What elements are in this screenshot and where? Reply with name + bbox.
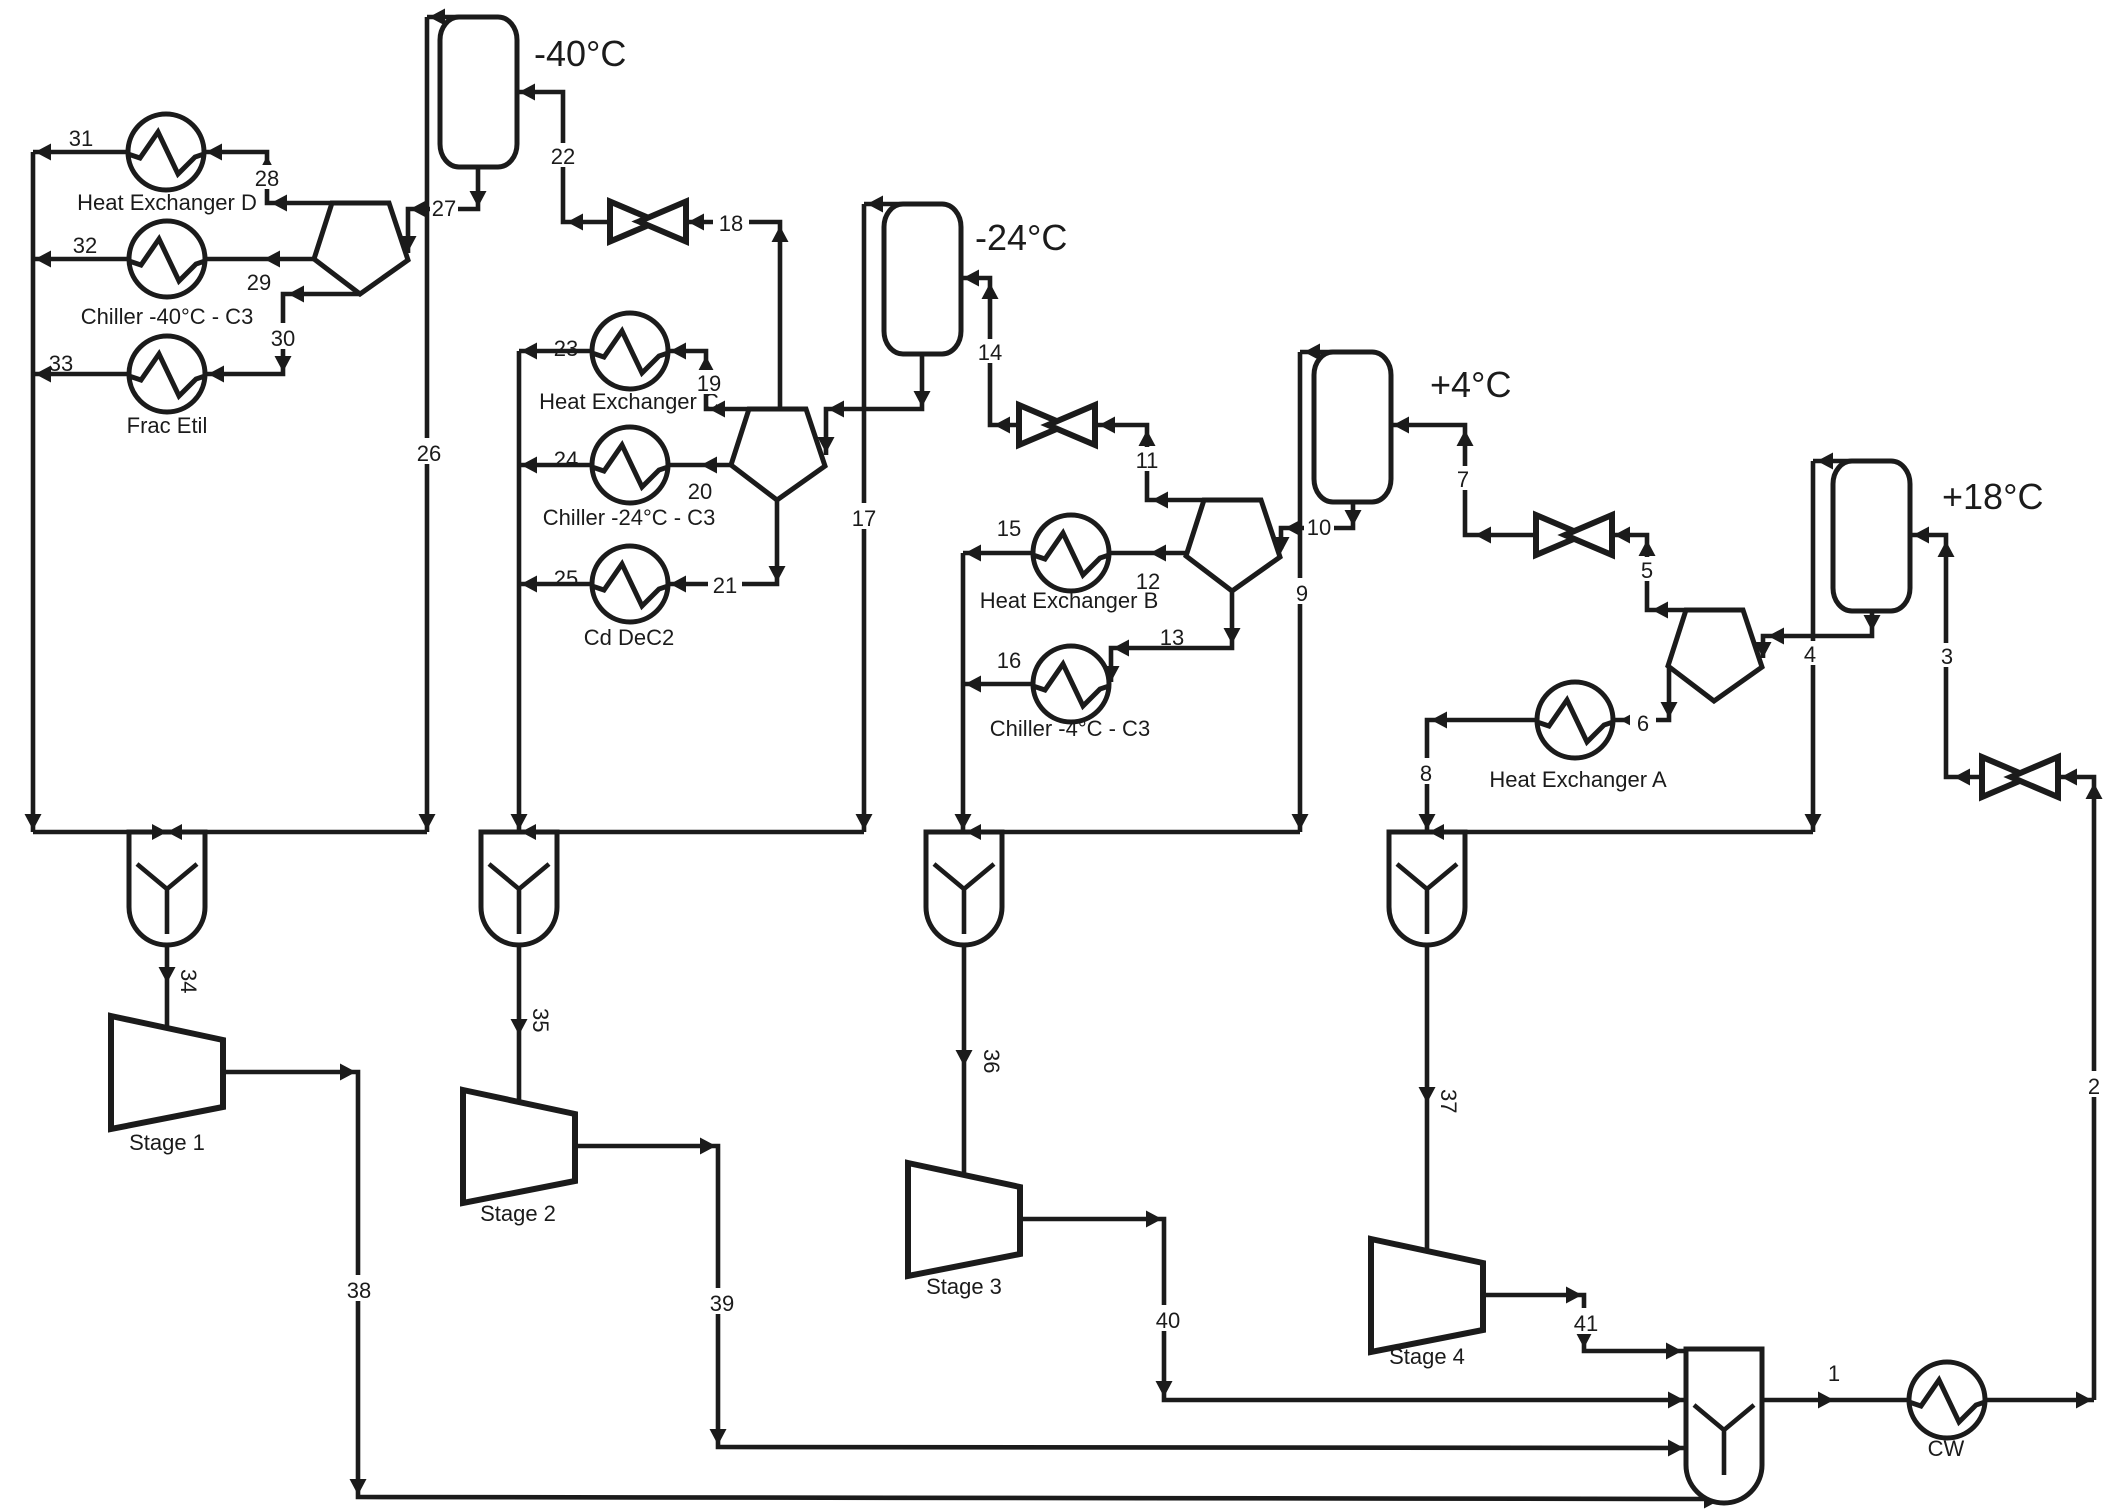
wire stream 1 final mixer to CW cooler: [1762, 1398, 1908, 1403]
svg-text:Chiller -40°C - C3: Chiller -40°C - C3: [81, 304, 254, 329]
wire stream 26 vertical: [425, 17, 430, 832]
wire stream 17 vertical: [862, 204, 867, 832]
svg-text:15: 15: [997, 516, 1021, 541]
svg-text:Stage 1: Stage 1: [129, 1130, 205, 1155]
node stream 41 label: [1568, 1308, 1604, 1334]
wire V1 top vapour line to stream 26: [427, 15, 468, 20]
mixer MIX-4: [1389, 832, 1465, 945]
node stream 3 label: [1934, 643, 1960, 667]
node stream 5 label: [1634, 557, 1660, 581]
wire mixer 4 collect line: [1389, 830, 1813, 835]
wire stream 41 Stage 4 discharge to final mixer: [1483, 1295, 1686, 1351]
wire stream 25: [519, 582, 593, 587]
heat exchanger Heat Exchanger A: [1537, 682, 1613, 758]
svg-text:5: 5: [1641, 558, 1653, 583]
node stream 27 label: [430, 195, 458, 219]
heat exchanger Chiller -4C - C3: [1033, 646, 1109, 722]
junction arrow at mixer 3 inlet: [966, 824, 981, 840]
svg-text:Stage 3: Stage 3: [926, 1274, 1002, 1299]
wire stream 9 vertical: [1298, 352, 1303, 832]
mixer MIX-2: [481, 832, 557, 945]
node stream 39 label: [704, 1288, 740, 1314]
svg-text:30: 30: [271, 326, 295, 351]
svg-text:8: 8: [1420, 761, 1432, 786]
node stream 19 label: [692, 370, 726, 394]
svg-text:39: 39: [710, 1291, 734, 1316]
svg-text:CW: CW: [1928, 1436, 1965, 1461]
svg-text:31: 31: [69, 126, 93, 151]
wire V4 top vapour line: [1813, 459, 1870, 464]
vessel V3 +4C flash drum: [1314, 352, 1391, 502]
svg-text:34: 34: [176, 969, 201, 993]
svg-text:14: 14: [978, 340, 1002, 365]
wire stream 21 pentagon 2 bottom outlet to Cd DeC2: [668, 501, 777, 584]
vessel V1 -40C flash drum: [440, 17, 517, 167]
svg-text:38: 38: [347, 1278, 371, 1303]
wire header 2 vertical: [517, 351, 522, 832]
node stream 6 label: [1630, 710, 1656, 734]
wire stream 2 recycle up to valve: [2058, 777, 2094, 1400]
mixer MIX-3: [926, 832, 1002, 945]
node stream 30 label: [267, 323, 299, 349]
svg-text:23: 23: [554, 336, 578, 361]
svg-text:+4°C: +4°C: [1430, 364, 1511, 405]
valve VLV-1 letdown to -40C drum: [610, 202, 657, 242]
wire stream 36 mixer 3 to Stage 3: [962, 945, 967, 1175]
node stream 40 label: [1149, 1305, 1187, 1331]
svg-text:35: 35: [528, 1008, 553, 1032]
mixer MIX-1: [129, 832, 205, 945]
compressor Stage 4: [1371, 1239, 1483, 1352]
svg-text:13: 13: [1160, 625, 1184, 650]
wire stream 13 pentagon 3 bottom outlet to Chiller -4C: [1111, 591, 1232, 682]
svg-text:40: 40: [1156, 1308, 1180, 1333]
svg-text:17: 17: [852, 506, 876, 531]
svg-text:7: 7: [1457, 467, 1469, 492]
wire stream 38 Stage 1 discharge to final mixer: [222, 1072, 1704, 1499]
wire stream 12 pentagon 3 left outlet to Heat Exchanger B: [1109, 551, 1186, 556]
svg-text:Stage 2: Stage 2: [480, 1201, 556, 1226]
node stream 8 label: [1413, 758, 1439, 784]
wire mixer 2 collect line: [481, 830, 864, 835]
svg-text:Heat Exchanger A: Heat Exchanger A: [1489, 767, 1667, 792]
svg-text:Heat Exchanger D: Heat Exchanger D: [77, 190, 257, 215]
wire stream 22 valve outlet to V1: [517, 92, 610, 222]
svg-text:33: 33: [49, 351, 73, 376]
wire stream 24: [519, 463, 593, 468]
svg-text:Chiller -4°C - C3: Chiller -4°C - C3: [990, 716, 1150, 741]
wire stream 32: [33, 257, 129, 262]
vessel V4 +18C flash drum: [1833, 461, 1910, 611]
svg-text:28: 28: [255, 166, 279, 191]
wire stream 37 mixer 4 to Stage 4: [1425, 945, 1430, 1255]
wire stream 18 from pentagon 2 to valve: [686, 222, 780, 409]
wire stream 6 pentagon 4 left outlet to Heat Exchanger A: [1613, 666, 1669, 720]
junction opposing arrows at mixer 1 inlet: [152, 824, 167, 840]
node stream 10 label: [1304, 514, 1334, 538]
wire stream 40 Stage 3 discharge to final mixer: [1020, 1219, 1686, 1400]
compressor Stage 3: [908, 1163, 1020, 1276]
tee pentagon 1: [314, 203, 408, 294]
svg-text:19: 19: [697, 371, 721, 396]
valve VLV-3 letdown to +4C drum: [1536, 515, 1583, 555]
svg-text:1: 1: [1828, 1361, 1840, 1386]
svg-text:-40°C: -40°C: [534, 33, 626, 74]
wire stream 28 pentagon top outlet to Heat Exchanger D: [204, 152, 332, 203]
wire stream 33: [33, 372, 129, 377]
compressor Stage 2: [463, 1090, 575, 1203]
wire stream 29 pentagon left outlet to Chiller -40C: [205, 257, 314, 262]
vessel V2 -24C flash drum: [884, 204, 961, 354]
svg-text:27: 27: [432, 196, 456, 221]
wire stream 4 V4 liquid to pentagon 4: [1763, 608, 1872, 658]
heat exchanger Heat Exchanger C: [592, 313, 668, 389]
svg-text:12: 12: [1136, 569, 1160, 594]
wire header 3 vertical: [961, 553, 966, 832]
node stream 28 label: [252, 165, 282, 189]
wire mixer 1 collect line: [33, 830, 427, 835]
node stream 22 label: [546, 143, 580, 167]
svg-text:10: 10: [1307, 515, 1331, 540]
node stream 2 label: [2081, 1071, 2107, 1097]
tee pentagon 2: [731, 409, 825, 500]
node stream 11 label: [1130, 447, 1164, 471]
heat exchanger Heat Exchanger B: [1033, 515, 1109, 591]
wire stream 16: [963, 682, 1034, 687]
wire V3 top vapour line to stream 9: [1300, 350, 1350, 355]
node stream 7 label: [1450, 466, 1476, 490]
wire stream 31: [33, 150, 128, 155]
svg-text:Heat Exchanger B: Heat Exchanger B: [980, 588, 1159, 613]
wire stream 14 valve outlet to V2: [961, 278, 1017, 425]
wire stream 34 mixer 1 to Stage 1: [165, 945, 170, 1027]
wire stream 8 Heat Exchanger A to mixer 4: [1427, 720, 1537, 832]
heat exchanger Chiller -40C - C3: [129, 221, 205, 297]
svg-text:25: 25: [554, 566, 578, 591]
wire stream 23: [519, 349, 593, 354]
heat exchanger Heat Exchanger D: [128, 114, 204, 190]
node stream 4 label: [1797, 641, 1823, 665]
node stream 26 label: [412, 438, 446, 464]
wire stream 15: [963, 551, 1033, 556]
wire stream 27 V1 liquid to pentagon 1: [408, 167, 478, 253]
node stream 18 label: [713, 208, 749, 234]
wire stream 39 Stage 2 discharge to final mixer: [575, 1146, 1686, 1448]
svg-text:26: 26: [417, 441, 441, 466]
heat exchanger Cd DeC2: [592, 546, 668, 622]
svg-text:21: 21: [713, 573, 737, 598]
svg-text:41: 41: [1574, 1311, 1598, 1336]
node stream 14 label: [972, 339, 1008, 363]
svg-text:22: 22: [551, 144, 575, 169]
wire stream 11 pentagon 3 top outlet to valve: [1097, 425, 1204, 500]
wire stream 7 valve outlet to V3: [1391, 425, 1536, 535]
junction arrow at mixer 2 inlet: [521, 824, 536, 840]
compressor Stage 1: [111, 1016, 223, 1129]
wire stream 3 valve outlet to V4: [1911, 535, 1983, 777]
svg-text:Chiller -24°C - C3: Chiller -24°C - C3: [543, 505, 716, 530]
heat exchanger Chiller -24C - C3: [592, 427, 668, 503]
node stream 17 label: [847, 503, 881, 529]
valve VLV-2 letdown to -24C drum: [1019, 405, 1066, 445]
svg-text:6: 6: [1637, 711, 1649, 736]
wire vapour vertical to mixer 4: [1811, 461, 1816, 832]
svg-text:18: 18: [719, 211, 743, 236]
svg-text:37: 37: [1436, 1089, 1461, 1113]
svg-text:Stage 4: Stage 4: [1389, 1344, 1465, 1369]
svg-text:16: 16: [997, 648, 1021, 673]
wire stream 1 CW outlet to stream 2 riser: [1986, 1398, 2094, 1403]
svg-text:11: 11: [1136, 448, 1159, 473]
node stream 38 label: [341, 1275, 377, 1301]
svg-text:+18°C: +18°C: [1942, 476, 2043, 517]
svg-text:24: 24: [554, 447, 578, 472]
wire V2 top vapour line to stream 17: [864, 202, 920, 207]
svg-text:-24°C: -24°C: [975, 217, 1067, 258]
heat exchanger Frac Etil: [129, 336, 205, 412]
svg-text:2: 2: [2088, 1074, 2100, 1099]
wire stream 20 pentagon 2 left outlet to Chiller -24C: [668, 463, 731, 468]
wire stream 30 pentagon bottom outlet to Frac Etil: [206, 294, 360, 374]
node stream 21 label: [708, 572, 742, 596]
valve VLV-4 on stream 2: [1982, 757, 2029, 797]
tee pentagon 4: [1668, 610, 1762, 701]
mixer MIX-5 final: [1686, 1349, 1762, 1503]
node stream 9 label: [1289, 578, 1315, 604]
svg-text:20: 20: [688, 479, 712, 504]
wire stream 19 pentagon 2 top outlet to Heat Exchanger C: [668, 351, 749, 409]
svg-text:Cd DeC2: Cd DeC2: [584, 625, 674, 650]
svg-text:36: 36: [979, 1049, 1004, 1073]
wire stream 5 pentagon 4 top outlet to valve: [1612, 535, 1686, 610]
wire header 1 vertical: [31, 152, 36, 832]
heat exchanger CW cooler: [1909, 1362, 1985, 1438]
svg-text:32: 32: [73, 233, 97, 258]
junction arrow at mixer 4 inlet: [1429, 824, 1444, 840]
svg-text:29: 29: [247, 270, 271, 295]
svg-text:4: 4: [1804, 642, 1816, 667]
wire mixer 3 collect line: [926, 830, 1300, 835]
svg-text:9: 9: [1296, 581, 1308, 606]
wire stream 10 V3 liquid to pentagon 3: [1281, 503, 1353, 549]
tee pentagon 3: [1186, 500, 1280, 591]
svg-text:Frac Etil: Frac Etil: [127, 413, 208, 438]
wire V2 liquid outlet to pentagon 2: [826, 351, 922, 455]
wire stream 35 mixer 2 to Stage 2: [517, 945, 522, 1101]
svg-text:3: 3: [1941, 644, 1953, 669]
